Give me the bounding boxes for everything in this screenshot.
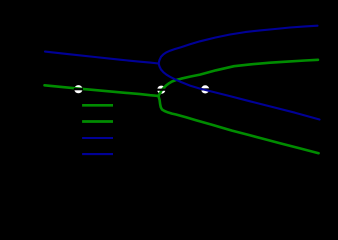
marker circle 3 (on blue lower branch) <box>201 85 209 93</box>
black bar through marker 2 <box>157 89 166 91</box>
green main branch (before veering point) <box>45 85 159 96</box>
blue upper branch (after veering point) <box>159 26 318 64</box>
marker circle 2 (on green upper branch) <box>157 86 165 94</box>
legend swatch: blue line 1 <box>82 137 113 139</box>
green lower branch (after veering point) <box>158 96 318 153</box>
black bar through marker 3 <box>201 88 210 90</box>
marker circle 1 (on green main line) <box>74 85 82 93</box>
blue main branch (before veering point) <box>45 52 159 64</box>
legend swatch: blue line 2 <box>82 153 113 155</box>
black bar through marker 1 <box>74 88 83 90</box>
legend swatch: green line 1 <box>82 104 113 107</box>
green upper branch (after veering point) <box>158 60 318 96</box>
legend swatch: green line 2 <box>82 120 113 123</box>
blue lower branch (after veering point) <box>159 63 320 119</box>
